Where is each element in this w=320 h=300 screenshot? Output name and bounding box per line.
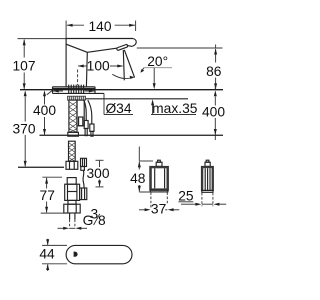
svg-text:86: 86 [206, 64, 222, 79]
hose 2 [88, 100, 92, 124]
svg-text:max.35: max.35 [152, 101, 198, 116]
svg-text:44: 44 [39, 247, 55, 262]
dim 300 [96, 160, 104, 187]
shank end nut [68, 132, 79, 136]
svg-text:48: 48 [130, 171, 146, 186]
svg-text:8: 8 [98, 213, 106, 228]
svg-text:140: 140 [88, 19, 111, 34]
dim 100 [78, 65, 124, 86]
reference line y167 [18, 166, 64, 168]
svg-text:400: 400 [202, 105, 225, 120]
svg-text:370: 370 [12, 121, 35, 136]
valve body [65, 184, 80, 200]
valve neck [68, 200, 76, 204]
cable connector [81, 158, 87, 170]
sensor window mark [74, 252, 78, 257]
flange width arrows [53, 90, 95, 93]
control box front view [150, 160, 169, 192]
escutcheon flange [53, 85, 96, 94]
hose 1 [84, 100, 86, 120]
svg-text:400: 400 [33, 103, 56, 118]
hose 2 connector [90, 124, 94, 136]
hose 1 connector [84, 121, 88, 136]
water stream 20 deg lines [112, 50, 135, 81]
pipe thread dim arrows [58, 227, 88, 230]
valve cap [67, 178, 76, 185]
shank threaded [69, 100, 77, 132]
deck break mark [47, 89, 54, 95]
dim 37 [139, 192, 179, 211]
max.35 up arrow [151, 99, 154, 114]
svg-text:300: 300 [86, 166, 109, 181]
base plate bottom view (pill) [66, 245, 132, 263]
deck bottom line [85, 98, 188, 100]
dim 86 [137, 45, 223, 90]
outlet pipe [70, 213, 75, 228]
svg-text:107: 107 [12, 59, 35, 74]
aerator [116, 44, 127, 50]
svg-text:100: 100 [87, 59, 110, 74]
valve rod threaded [69, 141, 76, 161]
shank sleeve [77, 100, 84, 126]
under-deck washer [68, 96, 86, 100]
20 deg label and leader [140, 54, 172, 73]
svg-text:37: 37 [151, 202, 166, 217]
dim 25 [178, 193, 226, 207]
dim 140 line [67, 21, 136, 32]
control box side view [201, 160, 213, 192]
dim 44 [42, 239, 67, 271]
reference line y135 [40, 134, 224, 136]
dim 107 line [18, 39, 67, 90]
faucet body outline [66, 21, 137, 87]
svg-text:77: 77 [40, 188, 55, 203]
max35 drop arrow from 20deg rail [153, 68, 156, 90]
valve bottom nut [64, 204, 80, 213]
dim 77 [41, 177, 68, 213]
svg-text:Ø34: Ø34 [105, 101, 131, 116]
sensor cable [83, 171, 84, 189]
valve side port [80, 188, 87, 200]
dim 400 right [214, 86, 217, 141]
svg-text:20°: 20° [147, 54, 168, 69]
dim 400 left [43, 90, 46, 135]
deck top line [20, 89, 223, 91]
dim 370 [24, 90, 27, 167]
svg-text:25: 25 [178, 189, 194, 204]
valve top nut [66, 161, 78, 169]
diam 34 leader and label rail [53, 93, 197, 114]
dim 48 [138, 147, 159, 193]
